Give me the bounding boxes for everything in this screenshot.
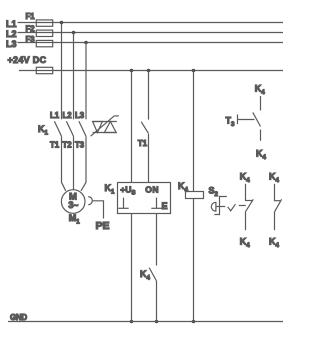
svg-text:PE: PE (96, 220, 110, 232)
svg-text:L2: L2 (6, 29, 17, 39)
wire box left pin to GND (131, 214, 133, 322)
latch check symbol (228, 204, 236, 211)
svg-text:3~: 3~ (68, 200, 78, 211)
junction dot L2 drop (72, 31, 76, 35)
svg-text:L1: L1 (50, 111, 60, 120)
svg-text:L1: L1 (6, 19, 17, 29)
wire +24V rail (19, 70, 283, 72)
svg-text:T3: T3 (75, 141, 85, 150)
svg-text:L3: L3 (75, 111, 85, 120)
PE terminal arc on motor (88, 197, 92, 205)
wire phase2 drop (73, 33, 75, 120)
wire changeover bottom stub (260, 130, 262, 141)
wire T3 tap (238, 115, 255, 125)
wire box E pin down (156, 214, 158, 266)
contact T3 changeover blade (253, 112, 261, 126)
junction dot E line at GND (155, 320, 159, 324)
wire E line lower (156, 281, 158, 322)
svg-text:GND: GND (10, 313, 27, 322)
contact T1 blade (141, 122, 148, 134)
contact K1 pole3 (79, 121, 86, 136)
contact K4 aux2 (NC) (275, 184, 282, 230)
wire phase1 drop (61, 23, 63, 120)
motor M1 (61, 190, 85, 226)
wire PE (92, 201, 104, 219)
fuse F1 (26, 12, 53, 26)
wire ON drop upper (148, 71, 150, 120)
switch S2 mushroom actuator (211, 197, 227, 215)
contact K1 pole1 (54, 121, 61, 136)
wire GND bus (8, 321, 283, 323)
svg-text:F1: F1 (26, 12, 36, 21)
svg-text:L3: L3 (6, 39, 17, 49)
wire L1 rail (18, 22, 284, 24)
contact K4 aux1 (NC) (246, 184, 254, 230)
wire L3 rail (18, 42, 284, 44)
fuse F3 (26, 35, 53, 47)
mechanical link dash (239, 205, 246, 207)
wire K4 coil to GND (193, 199, 195, 322)
svg-text:ON: ON (145, 184, 159, 194)
contact K1 pole2 (66, 121, 73, 136)
svg-text:F3: F3 (26, 35, 36, 44)
svg-text:E: E (162, 201, 168, 211)
fuse F2 (26, 25, 53, 37)
junction dot L3 drop (84, 41, 88, 45)
thyristor soft-start symbol (91, 116, 119, 136)
svg-text:T1: T1 (50, 141, 60, 150)
svg-text:+24V DC: +24V DC (8, 55, 47, 65)
wire phase3 to motor (81, 136, 86, 191)
wire phase1 to motor (62, 136, 66, 191)
svg-text:F2: F2 (26, 25, 36, 34)
junction dot K4 coil drop (192, 69, 196, 73)
svg-text:T2: T2 (63, 141, 73, 150)
soft starter box K1 (118, 183, 171, 214)
svg-text:T1: T1 (138, 139, 148, 148)
wire phase3 drop (85, 43, 87, 120)
wire phase2 to motor (73, 136, 75, 190)
contact K4 blade on E line (149, 268, 156, 281)
junction dot box left pin at GND (130, 320, 134, 324)
ground symbol inside box left (118, 198, 128, 209)
ground symbol inside box right (151, 198, 161, 209)
junction dot ON drop (147, 69, 151, 73)
svg-text:L2: L2 (63, 111, 73, 120)
junction dot +Us drop (130, 69, 134, 73)
junction dot L1 drop (60, 21, 64, 25)
wire ON drop lower (148, 134, 150, 183)
wire changeover top stub (260, 96, 262, 111)
relay coil K4 (186, 192, 204, 199)
junction dot K4 coil at GND (192, 320, 196, 324)
fuse F4 on 24V rail (36, 67, 52, 73)
wire +Us drop (131, 71, 133, 183)
wire K4 coil drop (193, 71, 195, 192)
wire L2 rail (18, 32, 284, 34)
